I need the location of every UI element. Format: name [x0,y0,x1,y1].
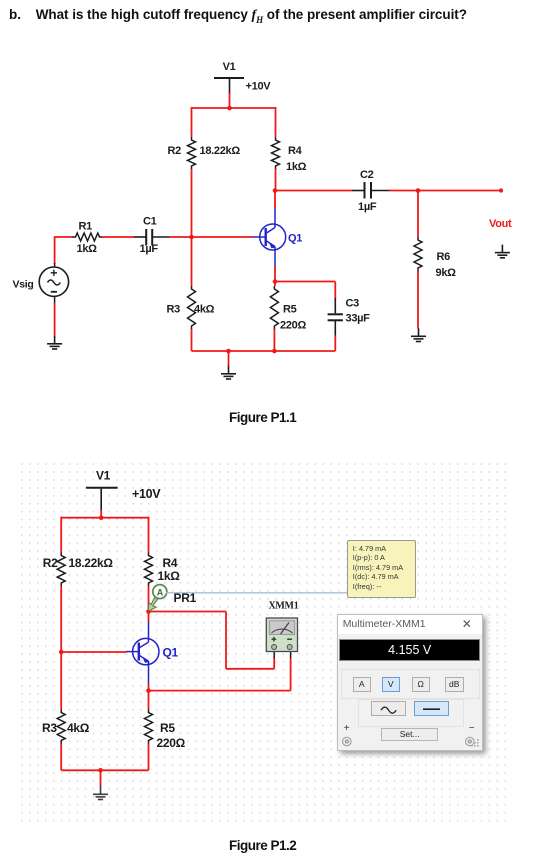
schematic grid dots background [18,460,506,822]
resistor R4 [272,137,280,169]
svg-text:1µF: 1µF [358,201,377,213]
fig2 wire rail to R4 [148,517,150,553]
capacitor C3 [328,298,343,337]
fig2 wire Q1 emitter to emitter node [148,684,150,692]
fig2 junction emitter node [146,688,151,693]
dialog voltage display 4.155 V [339,639,480,662]
fig2 resistor R3 labels [42,721,90,735]
fig2 resistor R4 labels [158,556,181,583]
fig2 wire rail to R2 [60,517,62,553]
fig2 resistor R5 [145,710,153,744]
probe PR1 readout box [347,540,416,598]
dialog set button and terminals [344,723,350,734]
svg-text:R5: R5 [283,304,297,316]
fig2 wire R2 to base node [60,586,62,652]
wire base node to Q1 base [192,236,254,238]
svg-text:1kΩ: 1kΩ [158,569,181,583]
resistor R2 [188,137,196,169]
svg-text:Q1: Q1 [288,233,302,245]
fig2 probe PR1 [148,585,167,612]
wire Q1 emitter to emitter node [274,267,276,283]
junction base node [189,235,194,240]
capacitor C2 [352,182,389,199]
svg-text:XMM1: XMM1 [269,601,299,612]
fig2 resistor R2 labels [43,556,114,570]
wire emitter rail to C3 top [334,282,336,300]
svg-text:R2: R2 [43,556,58,570]
svg-text:A: A [157,587,164,597]
top rail wire [192,107,276,109]
svg-text:R3: R3 [167,304,181,316]
source Vsig symbol [39,263,68,304]
svg-text:R3: R3 [42,721,57,735]
wire Vsig to ground [54,303,56,336]
fig2 resistor R3 [57,710,65,744]
wire emitter node to R5 [274,282,276,287]
wire V1 to top rail [229,93,231,108]
dialog title bar [338,615,483,634]
dialog AC DC buttons [358,699,464,727]
fig2 resistor R4 [145,553,153,587]
fig2 wire R3 to bottom rail [60,744,62,771]
question header text [9,7,546,25]
wire R2 to base node [191,169,193,237]
wire Vsig to R1 corner [54,237,73,264]
resistor R5 labels 220 [280,304,306,332]
fig2 bottom rail wire [61,769,148,771]
ground below R6 [411,328,426,341]
wire ground tap [228,351,230,366]
wire R4 to collector node [275,169,277,191]
svg-text:V1: V1 [223,61,236,73]
wire base node to R3 [191,236,193,286]
svg-text:+10V: +10V [246,81,272,93]
fig2 junction ground tap [98,768,103,773]
svg-text:1µF: 1µF [140,243,159,255]
power supply V1 symbol [214,78,244,94]
svg-text:18.22kΩ: 18.22kΩ [200,145,241,157]
svg-text:18.22kΩ: 18.22kΩ [69,556,114,570]
wire output node to Vout endpoint [418,190,501,192]
svg-text:220Ω: 220Ω [157,736,186,750]
svg-text:Vsig: Vsig [13,279,34,291]
svg-text:220Ω: 220Ω [280,320,306,332]
wire emitter node to C3 [275,281,335,283]
resistor R4 labels 1k [286,145,307,173]
fig2 wire base node down to R3 [60,652,62,710]
junction collector node [273,188,278,193]
fig2 junction top rail [99,515,104,520]
wire R3 to bottom rail [191,329,193,351]
fig2 supply V1 symbol [86,488,118,511]
wire collector node to Q1 [274,191,276,209]
fig2 ground symbol [93,786,108,800]
svg-text:C1: C1 [143,216,157,228]
fig2 wire R4 to collector node [148,586,150,612]
bottom rail wire [192,350,336,352]
fig2 transistor Q1 [126,621,159,685]
resistor R6 [414,237,422,271]
resistor R3 labels 4k [167,304,215,316]
svg-text:C3: C3 [346,298,360,310]
fig2 wire V1 to rail [100,510,102,518]
junction emitter node [273,279,278,284]
fig2 resistor R2 [57,553,65,587]
resistor R1 labels 1k [77,221,98,256]
svg-text:4kΩ: 4kΩ [67,721,90,735]
junction bottom rail ground tap [226,349,231,354]
resistor R3 [188,286,196,329]
wire C2 to output node [389,190,418,192]
svg-text:C2: C2 [360,169,374,181]
transistor Q1 [253,207,286,268]
wire C3 to bottom rail [334,336,336,352]
wire R5 to bottom rail [273,329,275,351]
fig2 probe wire to readout box [166,592,348,594]
svg-text:R5: R5 [160,721,175,735]
dialog mode buttons A V ohm dB [341,669,480,699]
svg-text:9kΩ: 9kΩ [436,267,457,279]
svg-text:R2: R2 [168,145,182,157]
node Vout endpoint [499,188,503,192]
fig2 wire collector node to multimeter plus [149,612,275,669]
svg-text:1kΩ: 1kΩ [77,243,98,255]
resistor R6 labels 9k [436,251,457,279]
multimeter dialog window [337,614,484,751]
fig2 wire emitter node to multimeter minus [149,650,291,691]
svg-text:1kΩ: 1kΩ [286,161,307,173]
fig2 wire R5 to bottom rail [148,744,150,771]
svg-text:Q1: Q1 [163,646,179,660]
ground below bottom rail [221,366,236,379]
svg-text:Vout: Vout [489,218,512,230]
wire R1 to C1 [102,236,135,238]
svg-text:R4: R4 [163,556,178,570]
svg-text:R4: R4 [288,145,303,157]
fig2 wire emitter node to R5 [148,691,150,710]
svg-text:V1: V1 [96,469,111,483]
wire top rail to R4 [275,107,277,137]
ground near Vout [495,245,510,258]
svg-text:33µF: 33µF [346,313,371,325]
wire collector node to C2 [275,190,352,192]
resistor R5 [270,286,278,329]
svg-text:4kΩ: 4kΩ [194,304,215,316]
wire R6 to ground [417,271,419,329]
junction top rail [227,106,232,111]
ground below Vsig [47,336,62,349]
fig2 top rail wire [61,517,148,519]
caption Figure P1.2 [229,838,296,853]
svg-text:R6: R6 [437,251,451,263]
capacitor C1 [134,229,170,246]
fig2 multimeter XMM1 icon [266,618,297,652]
caption Figure P1.1 [229,410,296,425]
fig2 wire collector node to Q1 [148,612,150,622]
junction bottom rail R5 [272,349,277,354]
junction output node [416,188,421,193]
fig2 wire ground tap [100,770,102,786]
wire output node to R6 [417,191,419,238]
resistor R1 [73,233,103,241]
fig2 resistor R5 labels [157,721,186,750]
fig2 junction collector node [146,609,151,614]
fig2 junction base node [59,650,64,655]
wire top rail to R2 [191,107,193,137]
resistor R2 labels 18.22k [168,145,241,157]
svg-text:R1: R1 [79,221,93,233]
wire C1 to base node [170,236,193,238]
svg-text:+10V: +10V [132,487,161,501]
fig2 wire base node to Q1 base [61,651,127,653]
